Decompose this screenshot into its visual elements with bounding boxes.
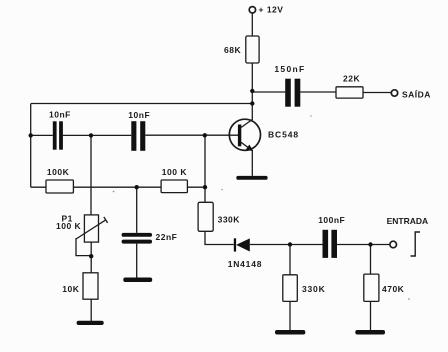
svg-text:22nF: 22nF [156, 232, 178, 242]
svg-text:100 K: 100 K [162, 167, 188, 177]
svg-text:330K: 330K [218, 215, 241, 225]
svg-text:10nF: 10nF [128, 110, 150, 120]
svg-text:150nF: 150nF [274, 64, 305, 74]
svg-text:+ 12V: + 12V [259, 5, 284, 15]
svg-text:ENTRADA: ENTRADA [387, 216, 429, 226]
svg-text:1N4148: 1N4148 [228, 259, 263, 269]
svg-text:68K: 68K [224, 45, 241, 55]
svg-text:10K: 10K [62, 284, 79, 294]
svg-text:BC548: BC548 [268, 129, 299, 139]
svg-text:100K: 100K [47, 167, 70, 177]
svg-text:470K: 470K [382, 284, 405, 294]
svg-text:22K: 22K [343, 74, 360, 84]
svg-text:SAÍDA: SAÍDA [402, 89, 431, 99]
svg-text:100nF: 100nF [318, 215, 345, 225]
svg-text:330K: 330K [302, 284, 326, 294]
svg-text:100 K: 100 K [56, 221, 82, 231]
svg-text:10nF: 10nF [49, 110, 71, 120]
